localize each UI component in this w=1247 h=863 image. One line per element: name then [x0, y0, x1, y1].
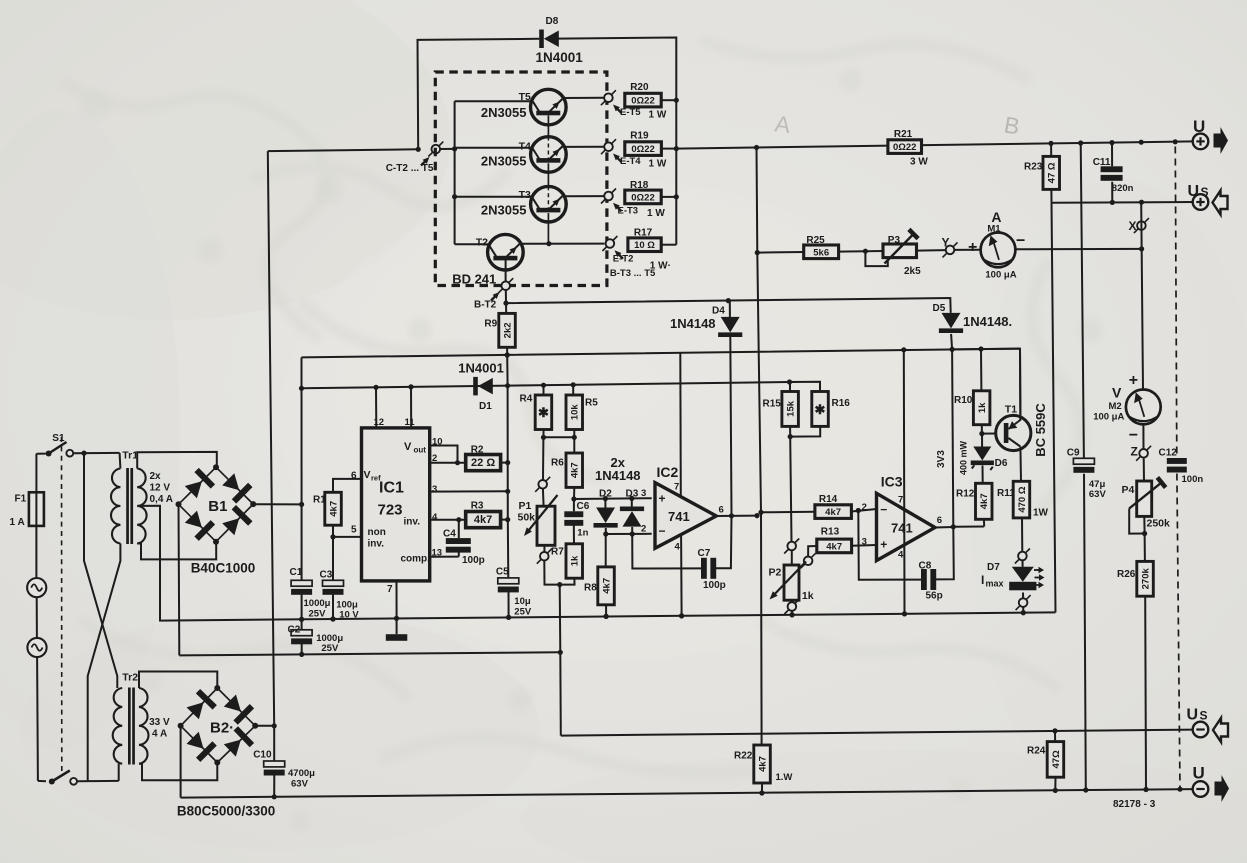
svg-text:1 W: 1 W	[649, 159, 667, 170]
svg-text:100n: 100n	[1182, 474, 1204, 485]
wire collector bus inside box	[452, 101, 457, 244]
wire pin12 pin11 to rail	[376, 387, 411, 428]
svg-text:1W: 1W	[1033, 507, 1049, 518]
svg-text:R17: R17	[634, 227, 653, 238]
wire D5 bottom branch	[952, 348, 1020, 351]
part number 82178-3	[1113, 799, 1156, 810]
wire box right edge R23 line	[1052, 203, 1056, 613]
svg-text:max: max	[986, 579, 1004, 589]
wire pin7 ground	[394, 581, 399, 634]
svg-text:10μ: 10μ	[514, 596, 531, 607]
svg-text:P3: P3	[888, 235, 901, 246]
pencil mark B	[1002, 111, 1022, 139]
svg-text:47Ω: 47Ω	[1051, 750, 1062, 769]
svg-text:0,4 A: 0,4 A	[150, 494, 174, 505]
resistor R15 15k	[763, 382, 799, 426]
svg-text:C11: C11	[1093, 157, 1111, 168]
svg-text:B40C1000: B40C1000	[191, 561, 256, 576]
svg-text:Z: Z	[1131, 445, 1138, 459]
wire Us- rail	[561, 728, 1194, 735]
wire D2 to R8	[605, 534, 607, 567]
svg-text:3: 3	[432, 484, 437, 495]
test point P2 top	[784, 539, 799, 554]
svg-text:E-T4: E-T4	[620, 156, 641, 167]
wire top rail to D8	[418, 38, 677, 150]
svg-text:0Ω22: 0Ω22	[893, 142, 916, 153]
svg-text:1N4001: 1N4001	[458, 361, 504, 376]
svg-text:D7: D7	[987, 562, 1000, 573]
svg-text:1N4148: 1N4148	[670, 316, 716, 331]
diode D8 1N4001	[536, 16, 584, 65]
wire vertical B1+ feed	[299, 357, 304, 580]
terminal Us-	[1187, 707, 1229, 743]
svg-text:1N4001: 1N4001	[536, 50, 584, 65]
svg-text:400 mW: 400 mW	[959, 440, 969, 475]
svg-text:T2: T2	[476, 237, 488, 249]
wire IC3 out to R12	[953, 526, 984, 528]
switch S1	[36, 433, 119, 457]
svg-text:F1: F1	[15, 494, 27, 505]
svg-text:S1: S1	[52, 433, 65, 444]
svg-text:E-T2: E-T2	[613, 254, 634, 265]
svg-text:U: U	[1193, 764, 1205, 783]
svg-text:6: 6	[937, 515, 942, 526]
svg-text:U: U	[1188, 183, 1200, 200]
svg-text:7: 7	[387, 584, 393, 595]
resistor R2 22R	[466, 444, 511, 470]
wire Tr1 secondary bottom to B1	[137, 542, 216, 560]
wire IC3 power line	[902, 350, 907, 617]
svg-text:63V: 63V	[291, 779, 309, 790]
svg-text:✱: ✱	[538, 405, 549, 420]
wire R13 to wiper	[808, 546, 817, 557]
test point P2 bottom	[784, 599, 799, 617]
svg-text:22 Ω: 22 Ω	[471, 457, 495, 469]
svg-text:I: I	[981, 573, 984, 587]
capacitor C12 100n	[1159, 448, 1204, 486]
wire X M2 column	[1141, 202, 1143, 389]
led D7 Imax	[981, 560, 1045, 598]
svg-text:11: 11	[405, 417, 416, 428]
diode D3 1N4148	[620, 489, 644, 537]
diode D5 1N4148	[933, 303, 1013, 349]
svg-text:47 Ω: 47 Ω	[1047, 162, 1058, 183]
svg-text:M1: M1	[987, 223, 1001, 234]
svg-text:C5: C5	[496, 567, 509, 578]
svg-text:1k: 1k	[977, 402, 988, 413]
svg-text:−: −	[1129, 427, 1138, 444]
wire Tr2 primary bottom	[118, 764, 120, 781]
wire R6 to diodes wire	[571, 496, 651, 502]
svg-text:4: 4	[898, 549, 904, 560]
svg-text:E-T5: E-T5	[620, 107, 641, 118]
potentiometer P1 50k	[518, 489, 558, 546]
svg-text:4k7: 4k7	[601, 578, 612, 594]
svg-text:+: +	[880, 538, 887, 552]
svg-text:0Ω22: 0Ω22	[631, 192, 654, 203]
wire rail B-T2 to D5	[506, 298, 951, 313]
svg-text:4 A: 4 A	[152, 729, 167, 740]
svg-text:C4: C4	[443, 528, 456, 539]
svg-text:82178 - 3: 82178 - 3	[1113, 799, 1156, 810]
svg-text:U: U	[1187, 707, 1199, 724]
svg-text:270k: 270k	[1140, 568, 1151, 590]
svg-text:V: V	[1112, 385, 1122, 401]
resistor R10 1k	[954, 349, 990, 436]
svg-text:1 W·: 1 W·	[650, 260, 671, 271]
svg-text:10k: 10k	[570, 404, 581, 421]
resistor R19 0R22	[625, 130, 677, 155]
test point E-T5	[601, 90, 667, 120]
svg-text:25V: 25V	[321, 643, 339, 654]
test point E-T4	[601, 139, 667, 169]
wire mains cross A	[84, 453, 117, 688]
svg-text:R9: R9	[484, 319, 497, 330]
svg-text:4700μ: 4700μ	[288, 768, 315, 779]
wire R25 P3 M1 branch	[755, 246, 1144, 255]
resistor R1 4k7	[313, 492, 341, 525]
wire vertical B2+ feed	[268, 151, 274, 726]
wire Us+ rail	[1052, 200, 1195, 205]
svg-text:6: 6	[719, 505, 724, 516]
fuse F1 1A	[10, 454, 44, 578]
svg-text:R14: R14	[819, 494, 838, 505]
svg-text:R6: R6	[551, 457, 564, 468]
svg-text:4k7: 4k7	[826, 541, 842, 552]
op-amp IC3 741	[862, 474, 942, 561]
wire Z to P4	[1143, 458, 1145, 481]
terminal U-	[1193, 764, 1230, 803]
transistor T5 2N3055	[455, 89, 566, 125]
resistor R4	[520, 385, 552, 437]
svg-text:25V: 25V	[514, 606, 532, 617]
dashed switch link	[61, 437, 63, 775]
wire IC3 output node	[935, 524, 956, 529]
wire U- rail	[181, 787, 1194, 800]
svg-text:4k7: 4k7	[757, 756, 768, 772]
transformer Tr2	[113, 671, 218, 764]
svg-text:IC2: IC2	[657, 464, 679, 480]
capacitor C3 100u	[320, 570, 360, 622]
svg-text:IC3: IC3	[881, 474, 903, 490]
wire IC3 out up to D5	[936, 349, 969, 526]
svg-text:inv.: inv.	[404, 517, 421, 528]
svg-text:820n: 820n	[1112, 183, 1134, 194]
svg-text:4: 4	[432, 512, 438, 523]
svg-text:2k2: 2k2	[502, 322, 513, 338]
resistor R7 1k	[551, 544, 583, 585]
switch S2	[38, 771, 119, 785]
resistor R26 270k	[1117, 534, 1153, 790]
wire T2 base to B-T2	[505, 257, 507, 282]
resistor R6 4k7	[551, 437, 583, 499]
resistor R18 0R22	[625, 180, 677, 204]
svg-text:2: 2	[862, 502, 867, 513]
svg-text:R22: R22	[734, 751, 753, 762]
capacitor C4 100p	[430, 520, 485, 566]
svg-text:2: 2	[641, 523, 646, 534]
ground symbol	[386, 634, 408, 641]
svg-text:R19: R19	[630, 130, 649, 141]
svg-text:15k: 15k	[786, 400, 797, 417]
wire main output rail	[676, 140, 1194, 151]
svg-text:ref: ref	[371, 474, 381, 483]
svg-text:R26: R26	[1117, 569, 1136, 580]
svg-text:12 V: 12 V	[150, 483, 171, 494]
pencil mark A	[773, 110, 792, 138]
resistor R17 10R	[628, 227, 676, 251]
capacitor C8 56p feedback	[858, 511, 954, 602]
wire R4 chain to P1	[542, 437, 544, 480]
capacitor C7 100p feedback	[632, 516, 731, 591]
wire Vout column	[506, 355, 509, 520]
svg-text:R20: R20	[630, 82, 649, 93]
svg-text:+: +	[1129, 372, 1138, 389]
svg-text:Tr1: Tr1	[122, 450, 138, 462]
svg-text:P2: P2	[769, 567, 782, 579]
resistor R21 0R22 3W	[888, 129, 928, 167]
resistor R11 470R 1W	[997, 481, 1049, 551]
svg-text:C8: C8	[919, 561, 932, 572]
resistor R16	[790, 382, 850, 427]
potentiometer P2 1k	[769, 550, 814, 602]
dashed box around power transistors	[435, 72, 607, 286]
svg-text:R5: R5	[585, 398, 598, 409]
svg-text:D5: D5	[933, 303, 946, 314]
svg-text:D1: D1	[479, 401, 492, 412]
diode D4 1N4148	[670, 301, 742, 515]
svg-text:R21: R21	[894, 129, 913, 140]
svg-text:2x: 2x	[150, 471, 162, 482]
svg-text:56p: 56p	[926, 591, 943, 602]
svg-text:3: 3	[641, 488, 646, 499]
svg-text:B2·: B2·	[210, 720, 234, 737]
wire sense column down	[559, 652, 562, 735]
svg-text:2N3055: 2N3055	[481, 203, 527, 218]
svg-text:3 W: 3 W	[910, 156, 928, 167]
svg-text:1 A: 1 A	[10, 517, 25, 528]
wire T4 emitter to E-T4	[563, 146, 605, 148]
transistor T2 BD241	[452, 234, 523, 286]
svg-text:R24: R24	[1027, 746, 1046, 757]
svg-text:5k6: 5k6	[813, 247, 829, 258]
svg-text:2N3055: 2N3055	[481, 153, 527, 168]
svg-text:IC1: IC1	[379, 480, 404, 497]
wire pin3	[430, 484, 511, 495]
svg-text:M2: M2	[1109, 401, 1122, 412]
ac source upper	[27, 578, 46, 638]
svg-text:R13: R13	[821, 527, 840, 538]
svg-text:T4: T4	[519, 140, 531, 152]
capacitor C1 1000u	[290, 567, 331, 622]
svg-text:R23: R23	[1024, 162, 1043, 173]
svg-text:D3: D3	[626, 489, 639, 500]
potentiometer P3 2k5	[865, 229, 921, 277]
wire R15 R16 bottoms	[788, 426, 821, 541]
svg-text:Tr2: Tr2	[122, 671, 138, 683]
resistor R24 47R	[1027, 731, 1064, 791]
svg-text:R8: R8	[584, 583, 597, 594]
capacitor C10 4700u	[253, 726, 315, 797]
svg-text:R3: R3	[471, 500, 484, 511]
svg-text:100 μA: 100 μA	[1093, 412, 1124, 423]
svg-text:7: 7	[898, 494, 903, 505]
svg-text:1.W: 1.W	[776, 772, 793, 783]
svg-text:R7: R7	[551, 547, 564, 558]
svg-text:C2: C2	[288, 625, 301, 636]
svg-text:13: 13	[432, 548, 443, 559]
svg-text:C9: C9	[1067, 447, 1080, 458]
resistor R12 4k7	[956, 483, 992, 526]
svg-text:5: 5	[351, 525, 357, 536]
transistor T1 BC559C	[982, 403, 1048, 457]
test point P1 bottom	[537, 545, 552, 563]
svg-text:0Ω22: 0Ω22	[631, 96, 654, 107]
svg-text:C6: C6	[577, 501, 590, 512]
svg-text:100p: 100p	[462, 555, 485, 566]
diode D2 1N4148	[594, 489, 618, 537]
svg-text:12: 12	[374, 417, 385, 428]
wire B2 minus down	[180, 726, 182, 798]
wire B1 minus down	[178, 504, 181, 655]
test point D7 bottom	[1016, 595, 1031, 615]
IC1 723 regulator	[362, 417, 431, 595]
svg-text:33 V: 33 V	[149, 717, 170, 728]
capacitor C5 10u	[496, 520, 532, 620]
terminal U+	[1193, 117, 1228, 154]
svg-text:25V: 25V	[309, 609, 327, 620]
test point P2 wiper	[801, 553, 816, 568]
svg-text:723: 723	[378, 502, 403, 519]
ac source lower	[27, 638, 46, 781]
wire pin10	[430, 437, 458, 463]
svg-text:1n: 1n	[577, 528, 588, 539]
capacitor C6 1n	[564, 499, 589, 544]
svg-text:S: S	[1200, 709, 1208, 723]
svg-text:X: X	[1129, 219, 1137, 233]
svg-text:1N4148: 1N4148	[595, 468, 641, 483]
svg-text:470 Ω: 470 Ω	[1017, 486, 1028, 512]
svg-text:4k7: 4k7	[570, 462, 581, 478]
svg-text:741: 741	[891, 521, 913, 536]
wire emitter bus	[674, 98, 679, 245]
svg-text:C10: C10	[253, 749, 272, 760]
svg-text:R2: R2	[471, 444, 484, 455]
meter M2 100uA voltmeter	[1093, 372, 1161, 449]
svg-text:4: 4	[675, 542, 681, 553]
capacitor C9 47u	[1067, 143, 1107, 790]
svg-text:D2: D2	[599, 489, 612, 500]
svg-text:4k7: 4k7	[328, 501, 339, 517]
test point Z	[1131, 445, 1152, 461]
wire sense node down	[559, 585, 562, 653]
test point D7 top	[1015, 549, 1030, 564]
svg-text:S: S	[1201, 185, 1209, 199]
svg-text:R12: R12	[956, 489, 975, 500]
svg-text:✱: ✱	[815, 402, 826, 417]
wire T1 collector to R11	[1019, 447, 1022, 482]
svg-text:1 W: 1 W	[647, 208, 665, 219]
wire pin4 to R3	[430, 512, 466, 523]
resistor R8 4k7	[584, 567, 614, 619]
svg-text:inv.: inv.	[368, 539, 385, 550]
svg-text:3: 3	[862, 537, 867, 548]
svg-text:1k: 1k	[802, 590, 814, 602]
svg-text:0Ω22: 0Ω22	[631, 144, 654, 155]
bridge rectifier B1 B40C1000	[176, 464, 257, 576]
wire T2 emitter to E-T2	[521, 243, 605, 245]
op-amp IC2 741	[641, 464, 724, 553]
svg-text:10 Ω: 10 Ω	[634, 240, 655, 251]
test point C-T2...T5	[386, 142, 444, 175]
svg-text:P1: P1	[519, 500, 532, 512]
svg-text:U: U	[1193, 117, 1205, 136]
wire T5 emitter to E-T5	[563, 97, 605, 99]
wire rail Vplus	[302, 346, 1021, 420]
meter M1 100uA ammeter	[968, 209, 1025, 281]
wire rail Vout top	[299, 379, 792, 391]
wire Tr2 secondary bottom to B2	[139, 763, 217, 781]
test point Y	[942, 236, 958, 258]
test point E-T2	[602, 236, 671, 279]
svg-text:P4: P4	[1122, 484, 1135, 496]
diode D1 1N4001	[458, 361, 504, 412]
svg-text:63V: 63V	[1089, 489, 1107, 500]
svg-text:−: −	[659, 524, 666, 538]
svg-text:741: 741	[668, 509, 690, 524]
svg-text:100p: 100p	[703, 580, 726, 591]
capacitor C2 1000u	[288, 619, 344, 654]
svg-text:+: +	[968, 239, 977, 256]
svg-text:A: A	[991, 209, 1001, 225]
wire pin5 node	[330, 525, 361, 581]
label 2x 1N4148	[595, 455, 641, 483]
svg-text:R10: R10	[954, 395, 973, 406]
svg-text:Y: Y	[942, 236, 950, 250]
resistor R3 4k7	[466, 500, 511, 527]
wire minus aux rail	[179, 650, 563, 657]
wire P1 bottom to node	[544, 561, 562, 588]
resistor R20 0R22	[625, 82, 677, 107]
potentiometer P4 250k	[1122, 477, 1171, 536]
svg-text:4k7: 4k7	[474, 514, 492, 526]
wire 0V rail	[159, 610, 1055, 622]
svg-text:C3: C3	[320, 570, 333, 581]
svg-text:1k: 1k	[570, 555, 581, 566]
svg-text:4k7: 4k7	[979, 493, 990, 509]
bridge rectifier B2 B80C5000	[177, 685, 275, 819]
svg-text:C-T2 ... T5: C-T2 ... T5	[386, 163, 434, 174]
wire base bus T3-T5	[546, 116, 551, 247]
wire pin6 to R1	[333, 471, 362, 493]
wire T1 emitter up	[1019, 349, 1021, 420]
svg-text:C7: C7	[698, 548, 711, 559]
svg-text:3V3: 3V3	[936, 450, 947, 468]
svg-text:2k5: 2k5	[904, 266, 921, 277]
svg-text:C12: C12	[1159, 448, 1178, 459]
svg-text:R16: R16	[832, 398, 851, 409]
resistor R9 2k2	[484, 313, 515, 347]
svg-text:R18: R18	[630, 180, 649, 191]
svg-text:V: V	[404, 441, 412, 453]
test point X	[1129, 218, 1149, 233]
transistor T4 2N3055	[455, 137, 567, 173]
svg-text:BD 241: BD 241	[452, 271, 496, 286]
wire mains cross B	[88, 544, 121, 781]
svg-text:1000μ: 1000μ	[304, 598, 331, 609]
svg-text:T3: T3	[519, 189, 531, 201]
wire B2 plus node	[255, 723, 277, 728]
